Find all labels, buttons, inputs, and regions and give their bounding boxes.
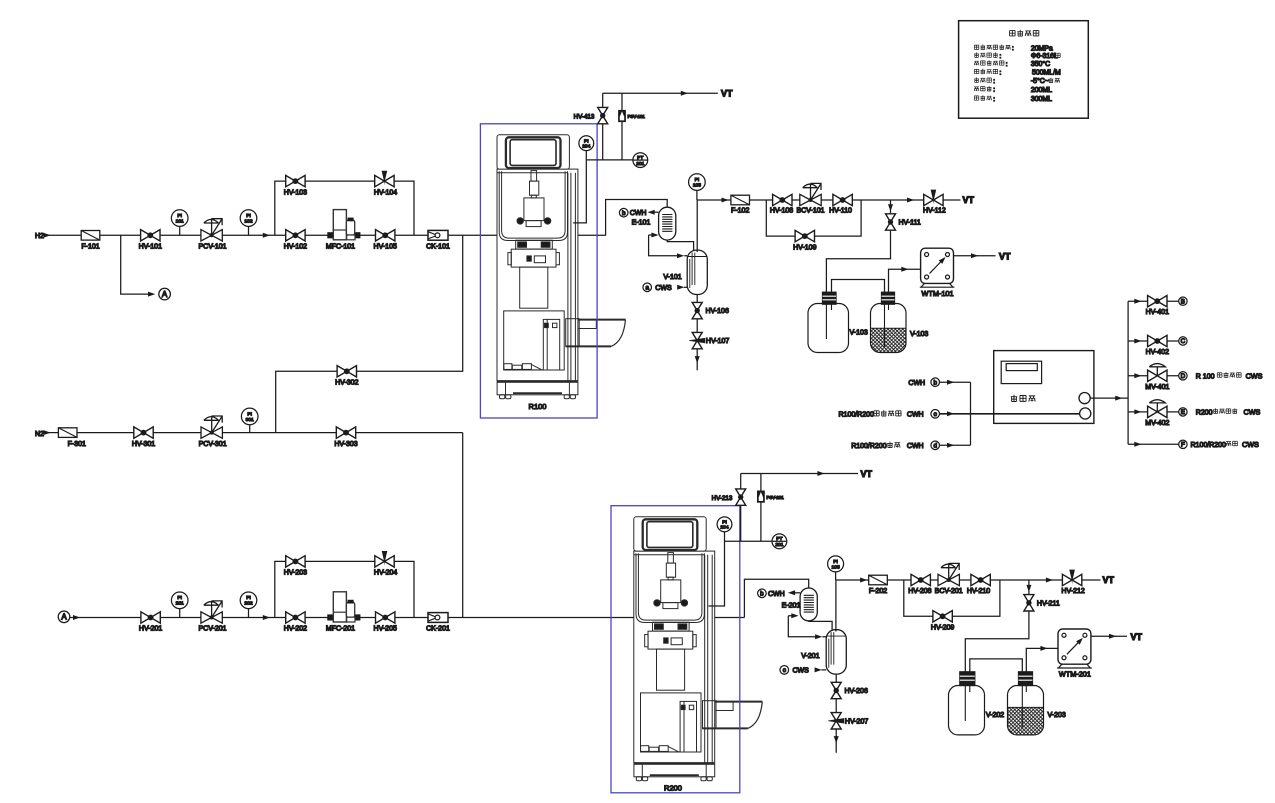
wire VT header R100 — [603, 89, 733, 99]
svg-text:CWS: CWS — [793, 668, 810, 675]
svg-text:F-102: F-102 — [731, 208, 749, 215]
svg-text:HV-212: HV-212 — [1061, 588, 1084, 595]
svg-text:F-101: F-101 — [81, 244, 99, 251]
node A feed (bottom line) — [58, 611, 80, 623]
node R200 package boundary — [611, 506, 740, 793]
svg-text:PI: PI — [177, 213, 182, 219]
wire bottle V-103a to V-103b — [832, 280, 885, 348]
instrument PI-201 — [171, 592, 188, 618]
wire V-201 drain — [835, 674, 837, 753]
svg-text:CWH: CWH — [630, 210, 647, 217]
valve BCV-201 — [935, 563, 963, 595]
instrument PI-102 — [240, 210, 257, 236]
svg-text:E-201: E-201 — [782, 603, 801, 610]
filter F-202 — [869, 575, 888, 595]
valve HV-206 — [831, 682, 868, 698]
node CWH header row c — [839, 410, 1086, 419]
svg-text:V-203: V-203 — [1048, 712, 1066, 719]
svg-text:VT: VT — [1103, 575, 1115, 585]
relief valve PSV-101 — [619, 93, 646, 160]
svg-text:201: 201 — [176, 601, 184, 607]
instrument PI-101 — [171, 210, 188, 236]
svg-text:V-201: V-201 — [801, 653, 819, 660]
valve HV-212 — [1061, 570, 1084, 595]
wire tee to PT/PSV/vent — [586, 159, 633, 161]
wire V-101 riser — [696, 190, 698, 252]
svg-text::: : — [993, 78, 995, 85]
wire PI-104 sense line — [573, 151, 586, 223]
svg-text:R100: R100 — [529, 402, 547, 411]
valve HV-203 — [284, 556, 307, 577]
svg-text:HV-104: HV-104 — [374, 189, 397, 196]
svg-text:HV-207: HV-207 — [845, 718, 868, 725]
node connector F with shaft cooling label — [1179, 440, 1259, 449]
check valve CK-101 — [426, 230, 450, 250]
wire feed main line — [70, 617, 745, 619]
valve HV-210 — [967, 574, 990, 595]
svg-text:VT: VT — [963, 195, 975, 205]
system design table — [959, 21, 1089, 119]
svg-text:WTM-101: WTM-101 — [921, 289, 953, 298]
svg-text:d: d — [933, 443, 937, 450]
valve HV-402 — [1146, 335, 1169, 356]
wire row E — [1128, 409, 1179, 414]
svg-text:HV-201: HV-201 — [139, 626, 162, 633]
svg-text:V-202: V-202 — [986, 712, 1004, 719]
wire bypass risers HV-103 branch — [275, 181, 414, 235]
svg-text:HV-101: HV-101 — [139, 244, 162, 251]
valve HV-205 — [374, 612, 397, 633]
svg-text::: : — [993, 96, 995, 103]
svg-text:B: B — [1181, 298, 1185, 305]
svg-text:VT: VT — [721, 89, 733, 99]
node connector D with R100 jacket cooling label — [1179, 371, 1263, 380]
instrument PI-104 — [579, 136, 594, 151]
valve HV-110 — [829, 194, 852, 214]
relief valve PSV-201 — [758, 474, 785, 542]
valve HV-109 — [793, 230, 816, 251]
instrument PI-204 — [717, 517, 732, 532]
wire drain arrow R200 — [834, 736, 839, 743]
svg-text:301: 301 — [246, 417, 254, 423]
valve PCV-201 — [198, 601, 226, 633]
gas washing bottle V-203 (liquid) — [1008, 672, 1066, 735]
valve HV-211 — [1024, 595, 1060, 611]
svg-text:VT: VT — [861, 469, 873, 479]
svg-text:HV-210: HV-210 — [967, 588, 990, 595]
svg-text:202: 202 — [244, 601, 252, 607]
valve HV-108 — [770, 194, 793, 214]
valve HV-302 — [335, 366, 358, 387]
wire PI-204 sense line — [709, 532, 725, 606]
node H2 inlet — [35, 233, 51, 240]
reactor machine R100 (cabinet, screen, stirrer, autoclave, furnace) — [497, 135, 626, 399]
valve HV-208 — [908, 574, 931, 595]
svg-text:HV-202: HV-202 — [284, 626, 307, 633]
wire E-201 bottom outlet — [809, 621, 832, 632]
svg-text:MFC-101: MFC-101 — [326, 244, 355, 251]
svg-text::: : — [1000, 69, 1002, 76]
node CWS in c (R200) — [780, 666, 826, 675]
svg-text:PI: PI — [246, 595, 251, 601]
filter F-101 — [81, 231, 100, 251]
svg-text:CWS: CWS — [1244, 408, 1261, 417]
separator V-101 — [663, 250, 707, 294]
instrument PI-202 — [240, 592, 257, 618]
svg-text:R100/R200: R100/R200 — [839, 412, 875, 419]
chiller unit — [994, 351, 1094, 424]
valve PCV-101 — [198, 219, 226, 251]
wire N2 main line — [45, 432, 463, 434]
wire V-101 drain — [696, 295, 698, 371]
wire E-201 lower loop to V-201 — [788, 613, 826, 639]
svg-text:HV-301: HV-301 — [132, 441, 155, 448]
svg-text:HV-209: HV-209 — [931, 625, 954, 632]
valve MV-402 — [1145, 400, 1169, 427]
svg-text:HV-110: HV-110 — [829, 208, 852, 215]
valve HV-105 — [374, 230, 397, 251]
svg-text:b: b — [622, 210, 626, 217]
svg-text:R100/R200: R100/R200 — [851, 443, 887, 450]
svg-text:HV-303: HV-303 — [334, 441, 357, 448]
svg-text:PCV-201: PCV-201 — [198, 626, 226, 633]
svg-text:WTM-201: WTM-201 — [1059, 670, 1091, 679]
reactor machine R200 (same unit, lower train) — [634, 517, 763, 781]
valve HV-201 — [139, 612, 162, 633]
svg-text:500ML/M: 500ML/M — [1032, 70, 1061, 77]
wire tee to PT/PSV/vent R200 — [725, 540, 773, 542]
instrument PI-105 (R200 train) — [828, 556, 844, 572]
svg-text:HV-205: HV-205 — [374, 626, 397, 633]
valve HV-202 — [284, 612, 307, 633]
wire HV-111 branch — [826, 200, 893, 292]
wire branch to connector A — [121, 235, 148, 294]
svg-text:E: E — [1181, 409, 1185, 416]
wire into bottle V-202 dip tube — [964, 672, 966, 722]
valve HV-104 — [374, 171, 397, 197]
svg-text:CWH: CWH — [907, 412, 924, 419]
svg-text:HV-208: HV-208 — [908, 588, 931, 595]
node connector B — [1179, 297, 1187, 305]
svg-text:CK-101: CK-101 — [426, 244, 450, 251]
svg-text:102: 102 — [244, 219, 252, 225]
svg-text:BCV-101: BCV-101 — [796, 208, 824, 215]
svg-text:R200: R200 — [664, 784, 682, 793]
svg-text:E-101: E-101 — [632, 220, 651, 227]
separator V-201 — [801, 630, 846, 674]
wire flow arrow — [263, 233, 270, 238]
svg-text:HV-206: HV-206 — [845, 688, 868, 695]
svg-text::: : — [993, 87, 995, 94]
wire E-101 lower loop to V-101 — [649, 233, 688, 259]
svg-text:R100/R200: R100/R200 — [1191, 442, 1227, 449]
wire HV-109 bypass — [766, 200, 861, 236]
svg-text:101: 101 — [176, 219, 184, 225]
instrument PT-201 — [772, 534, 787, 549]
svg-text:b: b — [933, 379, 937, 386]
valve HV-111 — [886, 214, 921, 230]
svg-text:101: 101 — [636, 161, 644, 167]
gas washing bottle V-202 (empty) — [949, 672, 1005, 735]
valve HV-107 — [689, 332, 729, 348]
svg-text:CWS: CWS — [1246, 371, 1263, 380]
svg-text:VT: VT — [1131, 632, 1143, 642]
svg-text:CWH: CWH — [907, 443, 924, 450]
svg-text:HV-203: HV-203 — [284, 570, 307, 577]
svg-text:D: D — [1181, 373, 1186, 380]
valve PCV-301 — [199, 416, 227, 448]
svg-text:HV-108: HV-108 — [770, 208, 793, 215]
svg-text:HV-103: HV-103 — [284, 189, 307, 196]
wire drain arrow — [695, 356, 700, 363]
wire HV-209 bypass — [904, 580, 1000, 616]
svg-text:105: 105 — [832, 564, 840, 570]
node CWH header row b — [908, 378, 970, 387]
valve HV-401 — [1146, 296, 1169, 317]
svg-text:F-202: F-202 — [869, 588, 887, 595]
wire bypass risers HV-203 branch — [275, 561, 414, 617]
svg-text:V-101: V-101 — [663, 274, 681, 281]
wire F-202 line — [836, 578, 1101, 583]
valve HV-413 — [574, 93, 608, 160]
node CWS in a — [643, 283, 687, 292]
svg-text:HV-109: HV-109 — [793, 244, 816, 251]
wire CWH trunk — [970, 382, 972, 445]
svg-text:PT: PT — [776, 536, 782, 542]
instrument PI-105 — [689, 174, 706, 191]
wet test meter WTM-201 — [1057, 629, 1092, 679]
node connector C — [1179, 337, 1187, 345]
svg-text:HV-204: HV-204 — [374, 570, 397, 577]
svg-text:c: c — [934, 411, 937, 418]
valve HV-106 — [692, 302, 729, 318]
svg-text::: : — [1000, 53, 1002, 60]
node connector E with R200 jacket cooling label — [1179, 408, 1261, 417]
heat exchanger E-201 — [782, 588, 818, 621]
valve BCV-101 — [796, 183, 824, 214]
instrument PI-301 — [241, 408, 258, 433]
chiller ports — [1079, 393, 1128, 420]
wire HV-302 branch — [276, 235, 463, 432]
valve HV-101 — [139, 230, 162, 251]
wire WTM-101 vent — [954, 251, 1012, 261]
svg-text:b: b — [760, 591, 764, 598]
svg-text:PT: PT — [637, 155, 643, 161]
svg-text:PI: PI — [246, 213, 251, 219]
svg-text:CWH: CWH — [908, 380, 925, 387]
svg-text:C: C — [1181, 338, 1186, 345]
wire into bottle V-103a dip tube — [825, 292, 827, 339]
svg-text:PSV-201: PSV-201 — [766, 495, 784, 500]
filter F-301 — [58, 428, 86, 448]
valve HV-103 — [284, 175, 307, 196]
svg-text:CWH: CWH — [768, 591, 785, 598]
svg-text:MFC-201: MFC-201 — [326, 626, 355, 633]
svg-text:MV-402: MV-402 — [1145, 420, 1169, 427]
wire row D — [1128, 373, 1179, 378]
svg-text:PCV-301: PCV-301 — [199, 441, 227, 448]
svg-text:HV-112: HV-112 — [923, 208, 946, 215]
svg-text:PI: PI — [247, 411, 252, 417]
svg-text:204: 204 — [720, 525, 728, 531]
svg-text:F: F — [1181, 442, 1185, 449]
valve HV-102 — [284, 230, 307, 251]
wire H2 main line — [44, 234, 606, 236]
svg-text:HV-213: HV-213 — [712, 495, 733, 502]
wire F-102 line — [697, 198, 960, 203]
svg-text:R 100: R 100 — [1196, 374, 1215, 381]
svg-text:350°C: 350°C — [1031, 60, 1050, 68]
svg-text:HV-106: HV-106 — [706, 308, 729, 315]
valve HV-209 — [931, 611, 954, 632]
wire WTM-201 vent — [1091, 632, 1143, 642]
valve MV-401 — [1145, 364, 1169, 391]
svg-text:V-103: V-103 — [910, 331, 928, 338]
svg-text:V-103: V-103 — [850, 330, 868, 337]
node A (to feed line) — [148, 288, 170, 300]
svg-text:PI: PI — [695, 177, 700, 183]
valve HV-207 — [828, 713, 868, 729]
gas washing bottle V-103 (empty) — [808, 292, 868, 352]
wire VT header R200 — [741, 469, 873, 479]
svg-text:105: 105 — [693, 183, 701, 189]
node R100 package boundary — [480, 124, 597, 418]
wire reactor outlet to E-101 — [606, 200, 668, 236]
svg-text:a: a — [645, 285, 649, 292]
wire HV-303 downcomer — [462, 433, 464, 618]
node CWH out b — [619, 208, 658, 217]
heat exchanger E-101 — [632, 207, 676, 240]
svg-text:HV-413: HV-413 — [574, 113, 595, 120]
valve HV-303 — [334, 427, 357, 448]
valve HV-112 — [923, 190, 946, 215]
svg-text:HV-401: HV-401 — [1146, 309, 1169, 316]
svg-text:20MPa: 20MPa — [1031, 45, 1053, 52]
svg-text:CWS: CWS — [655, 285, 672, 292]
svg-text:PI: PI — [177, 595, 182, 601]
svg-text:N2: N2 — [35, 431, 44, 438]
svg-text:MV-401: MV-401 — [1145, 384, 1169, 391]
mass flow controller MFC-101 — [326, 210, 360, 251]
wire row B — [1128, 299, 1179, 304]
filter F-102 — [731, 195, 750, 214]
valve HV-204 — [374, 551, 397, 577]
gas washing bottle V-103 (liquid) — [871, 292, 929, 352]
svg-text:HV-111: HV-111 — [899, 220, 921, 227]
wire HV-211 branch — [965, 580, 1031, 672]
wire bottle V-103b outlet to WTM-101 — [889, 267, 921, 292]
wire bottle V-203 outlet to WTM-201 — [1026, 646, 1058, 672]
svg-text:HV-107: HV-107 — [706, 338, 729, 345]
svg-text:PI: PI — [722, 519, 727, 525]
wire V-201 riser — [835, 572, 837, 632]
valve HV-213 — [712, 474, 746, 542]
svg-text::: : — [1012, 45, 1014, 52]
svg-text:A: A — [61, 613, 67, 622]
svg-text:PI: PI — [833, 559, 838, 565]
wire CWS distribution trunk — [1127, 301, 1129, 444]
node CWH out b (R200) — [758, 589, 800, 598]
svg-text:201: 201 — [775, 542, 783, 548]
node N2 inlet — [35, 430, 51, 438]
wire reactor outlet to E-201 — [744, 579, 808, 617]
svg-text:c: c — [783, 667, 786, 674]
svg-text:HV-102: HV-102 — [284, 244, 307, 251]
svg-text:200ML: 200ML — [1031, 87, 1052, 94]
check valve CK-201 — [426, 613, 450, 633]
svg-text:PCV-101: PCV-101 — [198, 244, 226, 251]
wire row C — [1128, 339, 1179, 344]
svg-text:F-301: F-301 — [68, 441, 86, 448]
svg-text:HV-211: HV-211 — [1037, 600, 1060, 607]
svg-text:104: 104 — [582, 144, 590, 150]
svg-text:BCV-201: BCV-201 — [935, 588, 963, 595]
svg-text:VT: VT — [999, 251, 1011, 261]
wire flow arrow — [263, 615, 270, 620]
svg-text:A: A — [162, 290, 168, 299]
svg-text:PI: PI — [584, 138, 589, 144]
node CWH header row d — [851, 441, 970, 450]
svg-text:HV-105: HV-105 — [374, 244, 397, 251]
wet test meter WTM-101 — [920, 248, 955, 298]
wire bottle V-202 to V-203 — [970, 659, 1023, 727]
svg-text::: : — [1006, 61, 1008, 68]
svg-text:HV-402: HV-402 — [1146, 349, 1169, 356]
wire E-101 bottom outlet — [667, 240, 693, 252]
wire row F — [1128, 442, 1179, 447]
svg-text:Φ6-316L: Φ6-316L — [1031, 53, 1058, 60]
svg-text:H2: H2 — [35, 233, 44, 240]
svg-text:CK-201: CK-201 — [426, 626, 450, 633]
mass flow controller MFC-201 — [326, 592, 360, 633]
svg-text:PSV-101: PSV-101 — [628, 114, 646, 119]
svg-text:300ML: 300ML — [1031, 96, 1052, 103]
valve HV-301 — [132, 427, 155, 448]
instrument PT-101 — [633, 153, 648, 168]
svg-text:CWS: CWS — [1242, 440, 1259, 449]
svg-text:R200: R200 — [1196, 410, 1213, 417]
svg-text:HV-302: HV-302 — [335, 380, 358, 387]
svg-text:-5°C~: -5°C~ — [1031, 77, 1049, 85]
